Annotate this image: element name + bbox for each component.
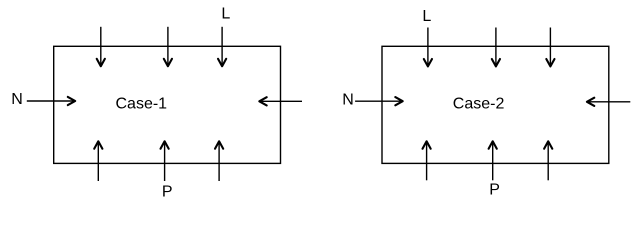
svg-text:N: N (11, 91, 23, 108)
svg-text:L: L (221, 6, 230, 23)
svg-text:P: P (162, 184, 173, 201)
bottom load arrow 1 (right box) (423, 141, 431, 180)
svg-text:P: P (489, 182, 500, 199)
left side arrow (right box) (355, 97, 403, 105)
left side arrow (left box) (27, 97, 75, 105)
svg-text:N: N (342, 92, 354, 109)
box Case-2 (382, 46, 609, 163)
svg-text:Case-2: Case-2 (453, 95, 505, 112)
bottom load arrow 2 (left box) (161, 141, 169, 181)
top load arrow 2 (right box) (492, 28, 500, 67)
top load arrow 3 (right box) (546, 28, 554, 67)
box Case-1 (54, 46, 281, 163)
bottom load arrow 3 (right box) (544, 141, 552, 180)
bottom load arrow 1 (left box) (94, 141, 102, 181)
svg-text:L: L (422, 8, 431, 25)
top load arrow 3 (left box) (218, 27, 226, 66)
top load arrow 2 (left box) (164, 27, 172, 66)
top load arrow 1 (right box) (424, 28, 432, 67)
right side arrow (right box) (587, 98, 630, 106)
bottom load arrow 3 (left box) (215, 141, 223, 181)
right side arrow (left box) (259, 97, 302, 105)
top load arrow 1 (left box) (97, 27, 105, 66)
bottom load arrow 2 (right box) (489, 141, 497, 180)
svg-text:Case-1: Case-1 (116, 95, 168, 112)
